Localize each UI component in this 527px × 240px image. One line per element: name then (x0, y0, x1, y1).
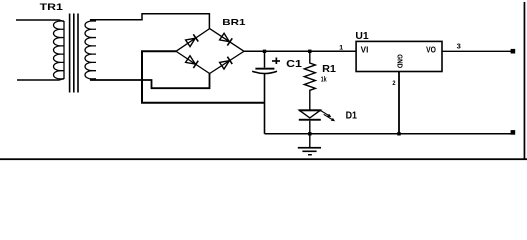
transformer TR1 core (69, 14, 79, 93)
svg-text:TR1: TR1 (40, 2, 63, 12)
svg-text:VI: VI (361, 46, 369, 55)
frame bottom border (0, 158, 527, 160)
node junction LED bottom (308, 132, 311, 135)
svg-text:BR1: BR1 (222, 17, 246, 27)
svg-text:1k: 1k (321, 74, 327, 83)
bridge diode bottom-left (185, 55, 198, 68)
LED D1 emission arrow 1 (321, 111, 329, 116)
transformer TR1 primary bottom lead (17, 79, 64, 81)
node ground terminal (511, 130, 516, 135)
node junction U1 GND (397, 132, 400, 135)
frame right border (524, 2, 526, 160)
capacitor C1 top plate (255, 68, 274, 70)
capacitor C1 bottom plate (252, 71, 277, 73)
node junction C1 top (263, 50, 266, 53)
svg-text:VO: VO (426, 46, 436, 55)
LED D1 emission arrow 2 (324, 114, 333, 120)
svg-text:C1: C1 (286, 59, 302, 70)
capacitor C1 top lead (264, 51, 266, 67)
svg-text:D1: D1 (346, 110, 358, 121)
wire positive rail (244, 50, 356, 52)
node output terminal (511, 49, 516, 54)
LED D1 cathode bar (299, 119, 321, 121)
wire secondary top to bridge AC1 (90, 14, 209, 29)
ground symbol (298, 134, 321, 156)
LED D1 triangle (299, 110, 320, 118)
resistor R1 with leads (304, 51, 315, 110)
U1 GND pin lead (398, 72, 400, 134)
bridge rectifier BR1 diamond (176, 29, 244, 74)
transformer TR1 secondary winding (85, 21, 96, 79)
wire bridge minus to ground rail (142, 51, 265, 103)
wire output (442, 50, 511, 52)
LED D1 bottom lead (309, 121, 311, 134)
svg-text:1: 1 (339, 45, 343, 52)
svg-text:3: 3 (457, 42, 461, 51)
wire ground rail (265, 133, 512, 135)
svg-text:U1: U1 (355, 31, 369, 42)
capacitor C1 bottom lead (264, 74, 266, 134)
capacitor C1 plus sign (272, 58, 280, 65)
transformer TR1 primary top lead (16, 20, 64, 22)
bridge diode top-right (219, 33, 232, 46)
node junction R1 top (308, 50, 311, 53)
bridge diode top-left (185, 34, 198, 47)
wire secondary bottom to bridge AC2 (90, 73, 210, 88)
transformer TR1 primary winding (53, 21, 64, 79)
bridge diode bottom-right (219, 57, 232, 70)
svg-text:GND: GND (395, 54, 404, 68)
svg-text:2: 2 (392, 80, 396, 87)
op-amp U1 regulator box (356, 41, 442, 71)
